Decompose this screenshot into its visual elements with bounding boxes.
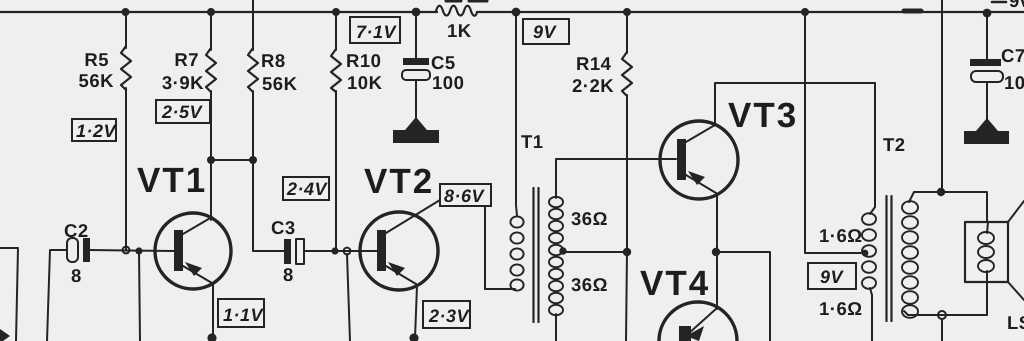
speaker voice coil (978, 232, 994, 272)
svg-text:100: 100 (432, 72, 464, 93)
node VT1 emitter bottom dot (207, 333, 216, 341)
wire speaker bottom (904, 282, 987, 315)
wire C2 left column (47, 250, 67, 341)
wire speaker coil stubs (987, 222, 988, 233)
box 8.6V (440, 184, 491, 206)
wire T2 secondary top to speaker (909, 192, 987, 222)
svg-text:VT4: VT4 (640, 264, 710, 303)
svg-text:1·6Ω: 1·6Ω (819, 298, 863, 319)
capacitor C3 (284, 239, 291, 264)
box 1.1V (218, 299, 264, 327)
wire emitter junction right and down (717, 252, 770, 341)
svg-text:9v: 9v (1009, 0, 1024, 11)
svg-text:R8: R8 (261, 50, 286, 71)
wire T2 primary top (870, 83, 875, 214)
svg-text:3·9K: 3·9K (162, 72, 204, 93)
wire top -9V rail left segment (0, 11, 437, 13)
svg-text:VT3: VT3 (728, 96, 798, 135)
wire R10 column (335, 12, 337, 50)
svg-text:8: 8 (71, 265, 82, 286)
svg-text:LS: LS (1007, 312, 1024, 333)
svg-text:9V: 9V (533, 22, 558, 42)
svg-text:C5: C5 (431, 52, 456, 73)
resistor R7 (206, 48, 216, 92)
wire top -9V rail right segment (477, 11, 1024, 13)
wire VT2 collector to T1 (484, 206, 486, 289)
value label boxes (72, 17, 856, 328)
svg-text:1·2V: 1·2V (76, 121, 118, 141)
wire R5 bottom to VT1 base node (125, 88, 127, 250)
box 9V (523, 19, 569, 44)
svg-text:1·1V: 1·1V (223, 305, 265, 325)
wire C2 left feed (0, 248, 18, 341)
svg-text:R5: R5 (84, 49, 109, 70)
node VT1 base ring (123, 247, 130, 254)
wire T2 center tap column (805, 12, 861, 253)
resistor R5 (121, 46, 131, 90)
resistor R14 (622, 52, 632, 96)
wire VT3 collector up (715, 83, 875, 125)
wire C2 to VT1 base (90, 250, 174, 251)
transformer T1 secondary winding (549, 197, 563, 315)
box 2.4V (283, 177, 329, 200)
wire R8 bottom to C3 (253, 91, 284, 251)
svg-text:1·6Ω: 1·6Ω (819, 225, 863, 246)
svg-text:C3: C3 (271, 217, 296, 238)
speaker cone bottom (1008, 282, 1024, 300)
speaker cone top (1008, 201, 1024, 222)
svg-text:56K: 56K (262, 73, 298, 94)
svg-text:9V: 9V (820, 267, 845, 287)
wire C7 column (986, 12, 988, 59)
wire R14 column (626, 12, 628, 53)
wire R14 column below junction (626, 252, 627, 341)
box 7.1V (350, 17, 400, 43)
wire center tap to R14 column (564, 251, 627, 253)
wire R7 bottom to collector junction (210, 91, 212, 160)
svg-text:C2: C2 (64, 220, 89, 241)
wire VT3 emitter down to junction (716, 195, 718, 252)
node speaker top dot (937, 188, 945, 196)
transformer T2 primary winding (862, 213, 876, 289)
svg-text:8: 8 (283, 264, 294, 285)
transistor VT3 (660, 121, 738, 199)
wire R14 bottom (626, 95, 628, 252)
wire T1 primary bottom to VT2 collector (485, 206, 515, 289)
wire R8 column (crosses rail) (252, 0, 254, 50)
wire VT3/VT4 emitter link (716, 252, 718, 309)
blob on rail (904, 9, 921, 14)
node VT1 base dot (135, 247, 142, 254)
box 9V T2 (808, 263, 856, 289)
resistor R8 (248, 48, 258, 92)
ground (C5) (393, 117, 439, 143)
node VT2 emitter dot (409, 333, 418, 341)
wire C3 to VT2 base (304, 250, 377, 252)
wire VT1 collector drop (210, 160, 212, 220)
node y160 dots (207, 156, 215, 164)
wire 9V column to T1 primary (516, 12, 517, 216)
node T2 center tap dot (862, 250, 869, 257)
capacitor C2 (67, 238, 78, 262)
svg-text:R7: R7 (174, 49, 199, 70)
svg-text:2·3V: 2·3V (428, 306, 471, 326)
svg-text:2·5V: 2·5V (161, 102, 204, 122)
capacitor C7 (970, 59, 1001, 66)
wire T2 primary bottom (870, 288, 872, 341)
wire R5 column (125, 12, 127, 48)
wire T1 secondary bottom (555, 314, 557, 341)
svg-text:R10: R10 (346, 50, 381, 71)
box 1.2V (72, 119, 116, 141)
node T1 center tap (560, 248, 566, 254)
corner blob bottom left (0, 329, 10, 341)
node R14 junction dot (623, 248, 631, 256)
wire jack line top (crosses rail) (941, 0, 943, 192)
transistor VT2 (360, 212, 438, 290)
wire C7 to ground (986, 82, 988, 123)
resistor 1K (in rail) (436, 6, 477, 16)
svg-text:2·4V: 2·4V (286, 179, 329, 199)
wire R7 column (210, 12, 212, 50)
node VT2 base dot (331, 247, 338, 254)
svg-text:8·6V: 8·6V (444, 186, 486, 206)
T1 core (532, 188, 534, 322)
svg-text:T2: T2 (883, 134, 906, 155)
cropped marks above 1K (446, 0, 461, 3)
wire jack line bottom (941, 319, 943, 341)
transformer T2 secondary winding (902, 201, 918, 318)
box 2.3V (423, 301, 470, 328)
wire R10 bottom to VT2 base node (335, 91, 337, 249)
minus 9v dash top right (992, 1, 1006, 4)
ground (C7) (964, 118, 1009, 144)
svg-text:10K: 10K (347, 72, 383, 93)
svg-text:R14: R14 (576, 53, 612, 74)
node speaker bottom ring (938, 311, 946, 319)
wire VT2 emitter down (415, 286, 417, 338)
transistor VT4 (659, 302, 737, 341)
transistor VT1 (155, 213, 231, 289)
wire VT2 base branch down (347, 254, 350, 341)
wire VT1 emitter down (212, 284, 214, 338)
svg-text:VT1: VT1 (137, 161, 207, 200)
transformer T1 primary winding (510, 216, 523, 290)
svg-text:100: 100 (1004, 72, 1024, 93)
svg-text:36Ω: 36Ω (571, 208, 608, 229)
svg-text:VT2: VT2 (364, 162, 434, 201)
wire VT1 base branch down (139, 251, 140, 341)
svg-text:56K: 56K (79, 70, 115, 91)
node VT2 base ring (344, 248, 351, 255)
wire junction row y160 (211, 159, 254, 161)
box 2.5V (156, 100, 210, 123)
svg-text:36Ω: 36Ω (571, 274, 608, 295)
capacitor C5 (403, 58, 429, 65)
T2 core (885, 196, 887, 321)
svg-text:1K: 1K (447, 20, 472, 41)
svg-text:C7: C7 (1001, 45, 1024, 66)
resistor R10 (331, 49, 341, 92)
speaker LS frame (965, 222, 1008, 282)
svg-text:7·1V: 7·1V (356, 22, 398, 42)
wire C5 to ground (415, 80, 417, 122)
wire C5 column (415, 12, 417, 58)
svg-text:2·2K: 2·2K (572, 75, 614, 96)
node emitter junction dot (712, 248, 720, 256)
node rail dots (122, 8, 130, 16)
svg-text:T1: T1 (521, 131, 544, 152)
wire T1 secondary top to VT3 base (556, 159, 676, 198)
